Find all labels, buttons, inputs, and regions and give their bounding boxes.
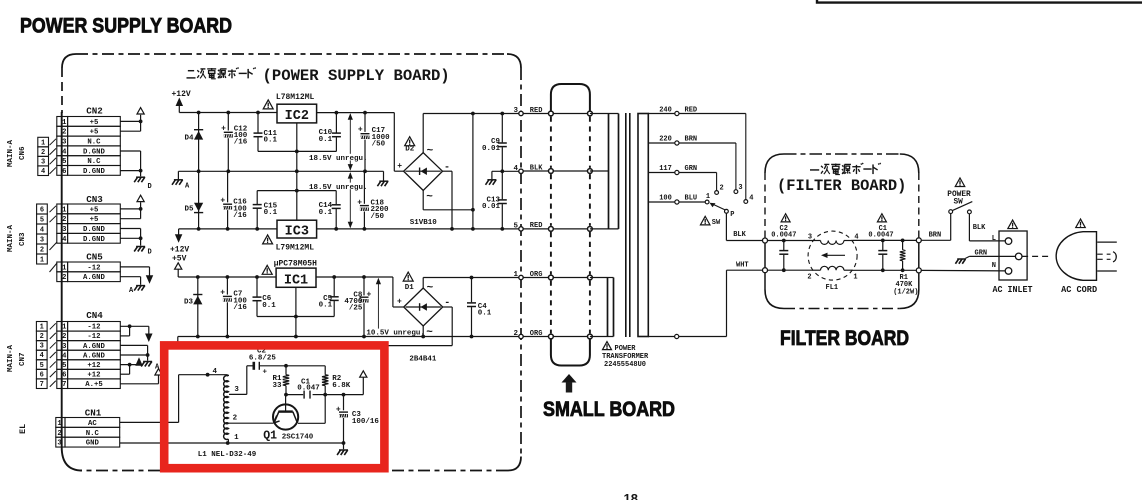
svg-text:D.GND: D.GND bbox=[83, 226, 106, 234]
filter board japanese title (一次電源ボード) bbox=[810, 163, 881, 175]
svg-text:4: 4 bbox=[854, 234, 858, 242]
transistor Q1 2SC1740 bbox=[263, 395, 314, 443]
label 10.5V unregu. bbox=[366, 329, 425, 338]
wire Q1 collector to R2 bbox=[298, 395, 325, 424]
CN3 cable diagonal marks bbox=[50, 206, 57, 222]
capacitor C2 0.0047 (filter) bbox=[771, 214, 796, 270]
label 18.5V unregu. (lower) bbox=[309, 183, 368, 193]
net +5V label bbox=[172, 255, 187, 264]
svg-text:4: 4 bbox=[213, 368, 218, 376]
resistor R1 33 bbox=[272, 366, 289, 395]
D2 terminal labels bbox=[397, 146, 450, 204]
AC cord wires bbox=[1097, 242, 1117, 271]
wire IC2 output rail bbox=[179, 111, 277, 115]
ground (row4 center tap) bbox=[486, 180, 497, 185]
warning triangle + SW label bbox=[700, 216, 721, 227]
svg-text:-12: -12 bbox=[87, 324, 100, 332]
svg-text:-: - bbox=[444, 163, 450, 174]
svg-text:3: 3 bbox=[40, 236, 44, 244]
svg-text:3: 3 bbox=[513, 107, 518, 115]
svg-text:/50: /50 bbox=[372, 141, 386, 149]
capacitor C13 0.01 bbox=[482, 171, 507, 229]
AC cord plug bbox=[1056, 232, 1096, 281]
connector CN1 (pins AC,N.C,GND) bbox=[56, 407, 120, 447]
svg-text:1: 1 bbox=[57, 420, 62, 428]
CN5 cable diagonal marks bbox=[50, 242, 58, 272]
svg-text:-12: -12 bbox=[87, 333, 100, 341]
svg-text:18: 18 bbox=[624, 491, 638, 500]
svg-text:3: 3 bbox=[41, 158, 45, 166]
small board cable outline bbox=[551, 84, 590, 366]
svg-text:IC3: IC3 bbox=[285, 225, 309, 240]
svg-text:4: 4 bbox=[62, 352, 67, 360]
svg-text:6: 6 bbox=[62, 372, 66, 380]
svg-text:GRN: GRN bbox=[975, 250, 988, 258]
warning triangle + POWER SW label bbox=[947, 178, 971, 207]
node: +5 open-triangle above CN2 bbox=[137, 108, 144, 114]
net +12V label (IC3 left) bbox=[170, 246, 189, 255]
svg-text:4: 4 bbox=[62, 236, 67, 244]
svg-text:CN2: CN2 bbox=[86, 105, 103, 116]
label SMALL BOARD bbox=[543, 398, 675, 421]
svg-text:1: 1 bbox=[62, 206, 67, 214]
svg-text:5: 5 bbox=[513, 222, 518, 230]
bridge rectifier D2 S1VB10 bbox=[404, 153, 443, 191]
svg-text:CN3: CN3 bbox=[86, 194, 103, 205]
capacitor C10 0.1 bbox=[319, 113, 341, 152]
svg-text:MAIN-A: MAIN-A bbox=[7, 344, 15, 372]
wire CN2 +5 pair to +5 net bbox=[120, 115, 142, 131]
svg-text:MAIN-A: MAIN-A bbox=[7, 139, 15, 167]
svg-text:D4: D4 bbox=[184, 135, 194, 143]
board pin 4 BLK bbox=[513, 165, 543, 174]
svg-text:6.8K: 6.8K bbox=[332, 382, 351, 390]
svg-text:+: + bbox=[397, 162, 402, 171]
filter board terminal circles bbox=[763, 238, 922, 273]
svg-text:1: 1 bbox=[62, 264, 67, 272]
voltage selector contact 3 bbox=[734, 184, 743, 194]
voltage selector contact 4 bbox=[744, 194, 754, 203]
svg-text:1: 1 bbox=[40, 323, 44, 331]
svg-text:5: 5 bbox=[62, 158, 66, 166]
board pin 2 ORG bbox=[513, 330, 542, 339]
svg-text:2: 2 bbox=[62, 274, 66, 282]
svg-text:+: + bbox=[357, 198, 362, 207]
transformer core bbox=[626, 113, 630, 337]
svg-text:2: 2 bbox=[233, 414, 238, 422]
label BRN bbox=[929, 232, 942, 240]
connector CN3 outer column (MAIN-A) bbox=[7, 204, 47, 264]
svg-text:FL1: FL1 bbox=[826, 284, 839, 292]
wire switch to AC inlet L bbox=[969, 214, 1005, 241]
title POWER SUPPLY BOARD bbox=[20, 14, 232, 38]
svg-text:-12: -12 bbox=[87, 264, 100, 272]
capacitor C2 6.8/25 bbox=[249, 355, 277, 377]
svg-text:L78M12ML: L78M12ML bbox=[276, 93, 315, 102]
wire CN3 +5 pair to +5 net bbox=[120, 202, 142, 219]
capacitor C8 4700/25 bbox=[344, 277, 371, 337]
svg-text:10.5V unregu.: 10.5V unregu. bbox=[366, 329, 425, 337]
svg-text:22455548U0: 22455548U0 bbox=[604, 361, 646, 369]
svg-text:/25: /25 bbox=[349, 305, 363, 313]
svg-text:+: + bbox=[366, 291, 371, 300]
svg-text:(1/2W): (1/2W) bbox=[893, 289, 918, 297]
primary tap 220 BRN bbox=[648, 136, 736, 190]
wire Q1 emitter to L1 pin2 bbox=[229, 422, 273, 424]
svg-text:SW: SW bbox=[712, 219, 721, 227]
svg-text:P: P bbox=[730, 211, 734, 219]
PSB english title (POWER SUPPLY BOARD) bbox=[263, 67, 450, 85]
svg-text:6: 6 bbox=[62, 168, 66, 176]
node: A.+5 open-triangle bbox=[155, 369, 162, 375]
svg-text:+: + bbox=[220, 197, 225, 206]
switch POWER SW bbox=[949, 202, 973, 214]
svg-text:~: ~ bbox=[427, 283, 434, 295]
PSB japanese title (二次電源ボード) bbox=[187, 67, 256, 78]
wire CN4 +12 pair to arrow bbox=[120, 363, 139, 375]
AC inlet connector bbox=[992, 231, 1027, 280]
svg-text:+5: +5 bbox=[90, 206, 99, 214]
wire IC1 output rail (+5V) bbox=[178, 275, 276, 279]
svg-text:0.1: 0.1 bbox=[262, 302, 276, 310]
warning triangle (AC cord) bbox=[1076, 219, 1086, 228]
svg-text:1: 1 bbox=[40, 256, 44, 264]
svg-text:D.GND: D.GND bbox=[83, 236, 106, 244]
svg-text:D2: D2 bbox=[405, 146, 415, 154]
capacitor C3 100/16 bbox=[336, 395, 380, 443]
svg-text:1: 1 bbox=[234, 434, 239, 442]
svg-text:2: 2 bbox=[807, 273, 811, 281]
svg-text:(POWER SUPPLY BOARD): (POWER SUPPLY BOARD) bbox=[263, 67, 450, 85]
wire WHT rail (filter board) bbox=[768, 268, 917, 272]
svg-text:N: N bbox=[992, 262, 996, 270]
connector CN3 (pins +5,+5,D.GND,D.GND) bbox=[57, 194, 121, 244]
svg-text:3: 3 bbox=[62, 226, 66, 234]
svg-text:~: ~ bbox=[426, 192, 433, 204]
ground D (below CN3) bbox=[134, 247, 152, 257]
svg-text:+12V: +12V bbox=[172, 90, 191, 99]
connector CN4 (pins -12,-12,A.GND,A.GND,+12,+12,A.+5) bbox=[57, 310, 121, 389]
svg-text:D5: D5 bbox=[184, 206, 194, 214]
transformer secondary winding (10.5V) bbox=[590, 278, 614, 337]
svg-text:BRN: BRN bbox=[685, 136, 698, 144]
ground A (below CN5) bbox=[129, 286, 145, 295]
dashed earth link to AC cord bbox=[1022, 255, 1051, 257]
svg-text:1: 1 bbox=[62, 119, 67, 127]
net arrow +12 (up, CN4) bbox=[135, 357, 143, 366]
svg-text:2: 2 bbox=[513, 330, 518, 338]
label FILTER BOARD bbox=[780, 327, 909, 350]
svg-text:+: + bbox=[358, 125, 363, 134]
svg-text:4: 4 bbox=[62, 148, 67, 156]
wire ground rail A (IC2 row) bbox=[178, 169, 383, 181]
board left edge bus (solid) bbox=[62, 112, 82, 471]
transformer secondary winding (18.5V CT) bbox=[590, 114, 619, 229]
svg-text:D: D bbox=[148, 183, 152, 191]
label 18.5V unregu. (upper) bbox=[309, 154, 368, 163]
warning triangle (IC2) bbox=[263, 100, 273, 109]
D1 terminal labels bbox=[397, 283, 450, 339]
voltage selector contact 2 bbox=[715, 185, 724, 195]
page number 18 bbox=[624, 491, 638, 500]
svg-text:0.1: 0.1 bbox=[478, 310, 492, 318]
wire row1 (1 ORG) to board pin bbox=[423, 276, 519, 280]
filter board english title (FILTER BOARD) bbox=[777, 177, 906, 195]
wire row3-row5 vertical link bbox=[472, 114, 474, 229]
wire CN5 -12 to arrow bbox=[120, 267, 149, 276]
svg-text:POWER SUPPLY BOARD: POWER SUPPLY BOARD bbox=[20, 14, 232, 38]
svg-text:0.1: 0.1 bbox=[264, 137, 278, 145]
svg-text:2: 2 bbox=[62, 129, 66, 137]
wire CN3 D.GND pair bbox=[120, 229, 142, 246]
svg-text:+12: +12 bbox=[87, 362, 100, 370]
svg-text:+5: +5 bbox=[90, 129, 99, 137]
svg-text:5: 5 bbox=[40, 362, 44, 370]
wire WHT to AC inlet N bbox=[921, 269, 1005, 272]
wire rail stub into red box bbox=[178, 375, 180, 423]
svg-text:IC1: IC1 bbox=[284, 274, 308, 289]
wire CN1 GND / L1 pin1 bottom rail bbox=[120, 441, 346, 449]
wire CN4 A.+5 to triangle bbox=[120, 375, 158, 384]
line filter FL1 bbox=[807, 231, 858, 292]
svg-text:~: ~ bbox=[426, 327, 433, 339]
svg-text:+5V: +5V bbox=[172, 255, 187, 264]
wire CN4 A.GND pair bbox=[120, 345, 149, 360]
svg-text:7: 7 bbox=[62, 381, 66, 389]
capacitor C18 2200/50 bbox=[357, 171, 389, 229]
svg-text:6: 6 bbox=[40, 206, 44, 214]
board pin 1 ORG bbox=[513, 271, 542, 280]
svg-text:/50: /50 bbox=[371, 213, 385, 221]
svg-text:(FILTER BOARD): (FILTER BOARD) bbox=[777, 177, 906, 195]
ground A (left of IC2 row) bbox=[172, 180, 190, 191]
node: +5V open-triangle bbox=[175, 263, 182, 277]
svg-text:0.1: 0.1 bbox=[319, 136, 333, 144]
svg-text:CN6: CN6 bbox=[19, 146, 27, 160]
label S1VB10 bbox=[410, 219, 438, 227]
svg-text:N.C: N.C bbox=[87, 158, 101, 166]
wire IC3 input rail / row5 net bbox=[317, 227, 521, 231]
dimension arrow 10.5V bbox=[376, 278, 381, 336]
svg-text:/16: /16 bbox=[233, 212, 247, 220]
svg-text:N.C: N.C bbox=[86, 430, 100, 438]
svg-text:5: 5 bbox=[62, 362, 66, 370]
wire IC1 input rail bbox=[316, 275, 404, 307]
net arrow -12 (down) bbox=[146, 275, 154, 284]
svg-text:AC: AC bbox=[88, 420, 97, 428]
svg-text:4: 4 bbox=[41, 168, 45, 176]
power supply board dashed outline bbox=[62, 54, 521, 471]
wire GRN earth bbox=[965, 256, 1015, 258]
svg-text:EL: EL bbox=[18, 424, 28, 434]
wire IC3 ground mid rail bbox=[257, 190, 336, 192]
svg-text:BLK: BLK bbox=[733, 231, 746, 239]
wire CN1 AC to L1 pin4 bbox=[120, 373, 228, 423]
svg-text:D3: D3 bbox=[184, 298, 194, 306]
svg-text:2B4B41: 2B4B41 bbox=[409, 355, 437, 363]
svg-text:CN4: CN4 bbox=[86, 310, 103, 321]
svg-text:+: + bbox=[397, 297, 402, 306]
svg-text:100: 100 bbox=[659, 195, 672, 203]
wire D2 ac-bottom to row5 branch bbox=[423, 190, 475, 211]
svg-text:4: 4 bbox=[749, 194, 753, 202]
wire CN2 D.GND pair bbox=[120, 151, 142, 176]
svg-text:TRANSFORMER: TRANSFORMER bbox=[602, 353, 649, 361]
svg-text:0.01: 0.01 bbox=[482, 145, 501, 153]
svg-text:6.8/25: 6.8/25 bbox=[249, 355, 277, 363]
transformer primary winding bbox=[638, 114, 648, 337]
bridge rectifier D1 2B4B41 bbox=[404, 288, 443, 326]
wire IC3 output rail bbox=[179, 227, 277, 235]
EL label bbox=[18, 424, 28, 434]
primary tap 100 BLU bbox=[648, 195, 705, 204]
inductor L1 NEL-D32-49 bbox=[213, 368, 240, 443]
wire D2 ac-top to row3 bbox=[422, 114, 424, 153]
wire row3 (3 RED) to board pin bbox=[423, 112, 519, 116]
svg-text:BLU: BLU bbox=[685, 195, 698, 203]
resistor R2 6.8K bbox=[322, 366, 351, 395]
wire BRN to power switch bbox=[921, 214, 950, 241]
label GRN bbox=[975, 250, 988, 258]
svg-text:~: ~ bbox=[427, 146, 434, 158]
svg-text:+: + bbox=[221, 125, 226, 134]
svg-text:A.GND: A.GND bbox=[83, 352, 106, 360]
svg-text:0.1: 0.1 bbox=[264, 209, 278, 217]
capacitor C5 0.1 bbox=[319, 277, 339, 317]
svg-text:2: 2 bbox=[62, 216, 66, 224]
warning triangle (IC3) bbox=[263, 235, 273, 244]
svg-text:AC CORD: AC CORD bbox=[1061, 284, 1097, 295]
capacitor C17 1000/50 bbox=[358, 113, 390, 172]
svg-text:2: 2 bbox=[40, 246, 44, 254]
wire IC2-IC3 center ground pin bbox=[295, 123, 299, 220]
warning triangle + D2 label bbox=[405, 137, 415, 154]
label 2B4B41 bbox=[409, 355, 437, 363]
connector CN5 (pins -12,A.GND) bbox=[57, 251, 121, 282]
svg-text:L1 NEL-D32-49: L1 NEL-D32-49 bbox=[198, 451, 257, 459]
svg-text:+: + bbox=[263, 369, 268, 377]
svg-text:D: D bbox=[148, 249, 152, 257]
svg-text:A.+5: A.+5 bbox=[85, 381, 103, 389]
svg-text:WHT: WHT bbox=[736, 262, 749, 270]
ground D (below CN2) bbox=[134, 177, 152, 191]
warning triangle (AC inlet) bbox=[1008, 220, 1018, 229]
capacitor C1 0.0047 (filter) bbox=[868, 214, 893, 271]
SMALL BOARD pointer arrow bbox=[562, 374, 577, 393]
wire BLK rail (filter board) bbox=[768, 239, 917, 243]
svg-text:3: 3 bbox=[62, 139, 66, 147]
svg-text:SW: SW bbox=[954, 199, 964, 207]
wire L1 pin3 to C2 bbox=[229, 366, 253, 395]
svg-text:FILTER BOARD: FILTER BOARD bbox=[780, 327, 909, 350]
svg-text:3: 3 bbox=[738, 184, 742, 192]
svg-text:33: 33 bbox=[272, 382, 282, 390]
ground (oscillator) bbox=[337, 450, 348, 455]
small board terminals (circles) bbox=[549, 111, 593, 339]
svg-text:18.5V unregu.: 18.5V unregu. bbox=[309, 155, 368, 163]
wire oscillator top rail bbox=[259, 364, 325, 368]
wire IC1 ground pin bbox=[294, 287, 298, 338]
net arrow +12V (up) bbox=[176, 98, 184, 113]
svg-text:IC2: IC2 bbox=[285, 109, 309, 124]
previous-page frame corner (top right) bbox=[817, 0, 1142, 3]
svg-text:D.GND: D.GND bbox=[83, 148, 106, 156]
svg-text:0.1: 0.1 bbox=[319, 209, 333, 217]
capacitor C15 0.1 bbox=[253, 191, 278, 229]
wire ground rail (IC1 row / row2 net) bbox=[178, 335, 519, 344]
svg-text:4: 4 bbox=[40, 226, 44, 234]
label L1 NEL-D32-49 bbox=[198, 451, 257, 459]
dimension arrow 18.5V (lower) bbox=[348, 172, 353, 228]
wires rows through small board bbox=[523, 114, 587, 337]
svg-text:100/16: 100/16 bbox=[352, 418, 380, 426]
svg-text:BRN: BRN bbox=[929, 232, 942, 240]
svg-text:1: 1 bbox=[513, 271, 518, 279]
svg-text:240: 240 bbox=[659, 106, 672, 114]
primary tap 117 GRN bbox=[648, 165, 716, 190]
svg-text:1: 1 bbox=[62, 324, 67, 332]
svg-text:2: 2 bbox=[41, 149, 45, 157]
voltage selector contact 1 bbox=[705, 193, 710, 204]
svg-text:2SC1740: 2SC1740 bbox=[282, 434, 314, 442]
warning triangle (IC1) bbox=[262, 265, 272, 274]
wire IC2 ground mid rail bbox=[258, 150, 336, 154]
red highlight box bbox=[164, 345, 384, 468]
svg-text:D1: D1 bbox=[405, 284, 415, 292]
capacitor C16 100/16 bbox=[220, 171, 247, 229]
regulator IC3 L79M12ML bbox=[276, 220, 317, 252]
svg-text:0.047: 0.047 bbox=[297, 385, 320, 393]
svg-text:N.C: N.C bbox=[87, 139, 101, 147]
svg-text:2: 2 bbox=[57, 430, 61, 438]
connector CN6 outer column (MAIN-A) bbox=[7, 137, 49, 176]
capacitor C6 0.1 bbox=[253, 277, 277, 317]
resistor R1 470K 1/2W (filter) bbox=[893, 240, 918, 296]
connector CN7 outer column (MAIN-A) bbox=[7, 322, 47, 389]
svg-text:+12: +12 bbox=[87, 372, 100, 380]
svg-text:L79M12ML: L79M12ML bbox=[276, 243, 315, 252]
svg-text:CN1: CN1 bbox=[85, 407, 102, 418]
svg-text:GRN: GRN bbox=[685, 165, 698, 173]
svg-text:7: 7 bbox=[40, 381, 44, 389]
capacitor C14 0.1 bbox=[319, 191, 341, 229]
svg-text:1: 1 bbox=[706, 193, 710, 201]
label AC INLET bbox=[993, 284, 1033, 295]
svg-text:+5: +5 bbox=[90, 119, 99, 127]
primary tap 240 RED bbox=[648, 106, 746, 199]
svg-text:5: 5 bbox=[40, 216, 44, 224]
svg-text:117: 117 bbox=[659, 165, 672, 173]
board pin 3 RED bbox=[513, 107, 542, 116]
label BLK (switch) bbox=[973, 224, 986, 232]
net arrow +12V (down, IC3) bbox=[175, 234, 183, 243]
wire IC2 input rail (18.5V unregu) bbox=[317, 111, 405, 172]
ground A (CN4) bbox=[141, 362, 160, 372]
svg-text:0.0047: 0.0047 bbox=[868, 232, 893, 240]
svg-text:4: 4 bbox=[513, 165, 518, 173]
capacitor C4 0.1 bbox=[467, 278, 492, 337]
svg-text:µPC78M05H: µPC78M05H bbox=[274, 259, 317, 268]
svg-text:+12V: +12V bbox=[170, 246, 189, 255]
wire D1 ac-top to row1 bbox=[422, 278, 424, 289]
connector CN2 (pins +5,+5,N.C,D.GND,N.C,D.GND) bbox=[57, 105, 121, 176]
svg-text:6: 6 bbox=[40, 371, 44, 379]
svg-text:A.GND: A.GND bbox=[83, 343, 106, 351]
filter board outline bbox=[765, 154, 919, 309]
wire row4 (4 BLK) center tap bbox=[492, 169, 519, 179]
svg-text:Q1: Q1 bbox=[263, 430, 277, 443]
svg-text:3: 3 bbox=[808, 234, 812, 242]
